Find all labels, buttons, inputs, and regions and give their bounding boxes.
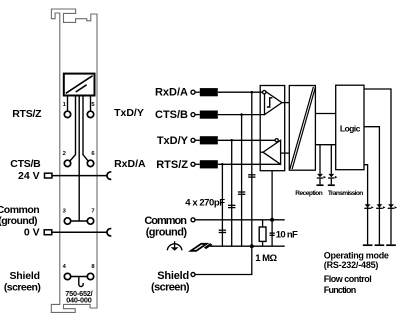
interface block U1	[260, 86, 285, 171]
svg-text:24 V: 24 V	[18, 170, 40, 182]
shield wire	[195, 246, 252, 274]
terminal 7	[87, 218, 93, 224]
junction C2 top	[230, 139, 233, 142]
node circle RTS/Z	[191, 162, 195, 166]
svg-text:Common: Common	[0, 204, 39, 216]
svg-text:(ground): (ground)	[146, 227, 188, 239]
node circle RxD/A	[191, 90, 195, 94]
LED Transmission	[328, 174, 338, 185]
data contacts box	[64, 74, 95, 96]
0V rail wire	[52, 231, 107, 233]
LED function	[364, 204, 373, 209]
wire Transmission LED drop	[330, 145, 332, 174]
24V feed square pin	[45, 173, 52, 178]
svg-text:(screen): (screen)	[4, 281, 41, 293]
capacitor 10nF	[270, 233, 275, 235]
wire terminal 3 to 7	[71, 220, 88, 222]
terminal 4	[64, 273, 70, 279]
junction C1 top	[221, 163, 224, 166]
svg-text:4 x 270pF: 4 x 270pF	[185, 198, 225, 209]
input pad CTS/B	[195, 111, 218, 119]
svg-text:RTS/Z: RTS/Z	[156, 159, 188, 171]
wire CTS/B row	[218, 114, 265, 116]
capacitor wire C2 (TxD/Y)	[231, 140, 233, 246]
svg-text:CTS/B: CTS/B	[10, 158, 41, 170]
svg-text:RxD/A: RxD/A	[114, 158, 146, 170]
capacitor C3 270pF	[238, 192, 245, 194]
svg-text:(RS-232/-485): (RS-232/-485)	[324, 260, 379, 270]
svg-text:TxD/Y: TxD/Y	[157, 135, 189, 147]
svg-text:CTS/B: CTS/B	[155, 109, 188, 121]
svg-text:TxD/Y: TxD/Y	[114, 107, 144, 119]
bus wire right	[83, 96, 88, 162]
capacitor C4 270pF	[248, 175, 255, 177]
isolation barrier block	[289, 86, 315, 171]
svg-text:Function: Function	[324, 285, 356, 295]
wire driver input	[281, 152, 290, 154]
wire terminal 4 to 8	[71, 276, 88, 278]
0V socket contact	[107, 229, 111, 236]
svg-text:040-000: 040-000	[66, 295, 92, 304]
wire box to terminal 5	[90, 96, 92, 112]
wire logic to operating mode	[364, 89, 391, 244]
svg-text:10 nF: 10 nF	[276, 230, 298, 241]
terminal 2	[64, 160, 70, 166]
wire isolation to logic upper	[315, 113, 335, 115]
svg-text:1 MΩ: 1 MΩ	[255, 253, 277, 264]
bus wire middle	[78, 96, 80, 222]
svg-text:Transmission: Transmission	[328, 190, 363, 197]
svg-text:Shield: Shield	[157, 270, 189, 282]
wire logic to function	[364, 165, 368, 245]
receiver buffer A1	[263, 91, 282, 115]
terminal 3	[64, 218, 70, 224]
node circle Common	[191, 218, 195, 222]
logic block U2	[336, 85, 364, 170]
svg-text:Operating mode: Operating mode	[324, 251, 389, 261]
svg-text:(screen): (screen)	[151, 281, 190, 293]
bus wire left	[70, 96, 76, 162]
svg-text:(ground): (ground)	[0, 215, 37, 227]
node circle Shield	[191, 273, 195, 277]
input pad TxD/Y	[195, 136, 218, 144]
shield rail wire	[212, 245, 285, 247]
module body silhouette	[51, 9, 97, 312]
0V feed square pin	[44, 230, 52, 235]
resistor R1 1 Mohm	[259, 220, 266, 246]
wire RTS/Z row	[218, 163, 281, 165]
capacitor C1 270pF	[219, 230, 226, 232]
capacitor C2 270pF	[228, 205, 235, 207]
LED flow control	[376, 204, 385, 209]
terminal 5	[87, 111, 93, 117]
svg-text:RTS/Z: RTS/Z	[12, 108, 42, 120]
capacitor wire C1 (RTS/Z)	[221, 164, 223, 246]
terminal 8	[87, 273, 93, 279]
LED Reception	[317, 174, 327, 185]
wire TxD/Y row	[218, 139, 275, 141]
wire isolation to logic lower	[315, 144, 335, 146]
terminal 1	[64, 111, 70, 117]
capacitor wire C4 (RxD/A)	[251, 92, 253, 246]
junction C3 top	[240, 113, 243, 116]
svg-text:Logic: Logic	[340, 123, 361, 133]
terminator bar flow control	[375, 244, 385, 246]
wire Reception LED drop	[319, 145, 321, 174]
svg-text:Shield: Shield	[9, 270, 39, 282]
wire RxD/A row	[218, 91, 263, 93]
svg-text:2: 2	[63, 151, 66, 157]
earth ground symbol	[167, 241, 182, 251]
svg-text:RxD/A: RxD/A	[155, 86, 188, 98]
svg-text:Flow control: Flow control	[324, 274, 372, 284]
10nF wire	[271, 171, 273, 247]
junction C4 top	[251, 91, 254, 94]
junction shield rail	[250, 244, 254, 248]
wire box to terminal 1	[67, 96, 69, 112]
input pad RxD/A	[195, 88, 218, 96]
wire logic to flow control	[364, 127, 379, 245]
24V rail wire	[52, 175, 107, 177]
terminal 6	[87, 160, 93, 166]
LED operating mode	[388, 204, 397, 209]
input pad RTS/Z	[195, 160, 218, 168]
svg-text:0 V: 0 V	[24, 226, 40, 238]
wire receiver output	[282, 102, 289, 104]
grounding tool icon	[191, 243, 214, 251]
terminator bar operating mode	[386, 244, 396, 246]
driver buffer A2	[263, 139, 281, 165]
capacitor wire C3 (CTS/B)	[241, 115, 243, 247]
junction common/10nF	[270, 218, 274, 222]
svg-text:Common: Common	[144, 215, 187, 227]
svg-text:Reception: Reception	[295, 190, 322, 197]
24V socket contact	[107, 172, 111, 179]
svg-text:7: 7	[91, 208, 94, 214]
node circle CTS/B	[191, 113, 195, 117]
common rail wire	[195, 219, 285, 221]
terminator bar function	[363, 244, 373, 246]
wire driver apex stub	[260, 151, 263, 153]
shield hook on terminal 4-8 wire	[79, 277, 83, 287]
node circle TxD/Y	[191, 138, 195, 142]
